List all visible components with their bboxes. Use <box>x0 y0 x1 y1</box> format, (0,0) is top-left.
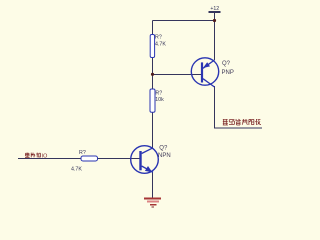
svg-text:PNP: PNP <box>222 70 234 76</box>
svg-text:IO: IO <box>42 153 48 159</box>
svg-text:Q?: Q? <box>222 61 231 67</box>
svg-text:Q?: Q? <box>159 146 168 152</box>
svg-text:+12: +12 <box>210 6 219 12</box>
svg-text:R?: R? <box>79 150 86 156</box>
svg-text:4.7K: 4.7K <box>155 42 166 48</box>
svg-text:R?: R? <box>155 34 162 40</box>
svg-text:10k: 10k <box>155 97 164 103</box>
svg-text:4.7K: 4.7K <box>71 167 82 173</box>
svg-text:NPN: NPN <box>158 153 171 159</box>
svg-text:R?: R? <box>155 91 162 97</box>
